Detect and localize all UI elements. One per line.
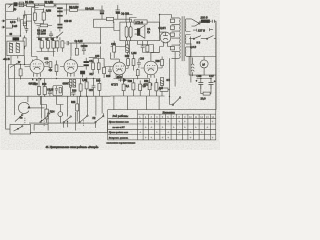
transformer T3 primary taps [170, 18, 179, 58]
wire antenna bus [6, 33, 21, 37]
resistor R4 [23, 36, 26, 50]
resistor R15 [49, 62, 52, 72]
wire switch bus bottom [6, 114, 108, 133]
antenna arrows left edge [2, 20, 5, 28]
wire drops to table [114, 96, 159, 110]
capacitor C16 [137, 59, 141, 69]
table column grid [138, 110, 211, 140]
resistor R41 horizontal [160, 88, 170, 91]
resistor R8 horizontal [37, 24, 53, 27]
MID-LEFT SECTION [32, 8, 56, 57]
capacitor C14 dark blob [80, 71, 85, 78]
coil L7 motor [191, 58, 194, 77]
resistor R25 [43, 79, 46, 97]
TOP-EDGE [6, 2, 132, 27]
variable capacitor C6 arrow [9, 61, 33, 68]
TOP-LEFT EXTRA WIRES [6, 4, 44, 38]
wire HT verticals [170, 52, 191, 97]
capacitor C17 [48, 88, 52, 96]
RECTIFIER AREA [151, 15, 172, 53]
capacitor C7 [49, 31, 53, 39]
diode D1 [118, 78, 130, 82]
resistor R1 [24, 4, 39, 7]
voltage selector switch [192, 19, 202, 26]
resistor R6 [33, 10, 36, 24]
wire vertical bus x31 [32, 8, 39, 57]
wire rectifier anode [160, 15, 172, 33]
resistor R24 [37, 79, 40, 97]
transformer T3 core [182, 16, 184, 61]
wire box feeds [126, 15, 137, 23]
wire horizontals lower [29, 123, 95, 134]
resistor R36 [155, 79, 158, 97]
wire tube V3 connections [111, 53, 128, 69]
wire stub rows [6, 15, 32, 33]
choke L8 [126, 41, 129, 55]
wire IF out [11, 56, 18, 65]
table column numbers [139, 116, 215, 119]
wire under box [138, 41, 154, 53]
capacitor C15 [108, 67, 112, 76]
wire x65-70 vertical [67, 4, 72, 57]
resistor R33a [132, 79, 135, 97]
resistor R20 [127, 55, 130, 69]
wire tube V1 connections [25, 57, 49, 67]
wire osc section [35, 4, 44, 38]
capacitor C1 dark pair top [57, 7, 63, 15]
OUTPUT BOX + TOP MID [114, 15, 160, 41]
wire rectifier heater [160, 43, 172, 47]
potentiometer R30 [41, 96, 51, 122]
capacitor C9 coupling [65, 41, 69, 45]
POWER TRANSFORMER SECTION [170, 15, 216, 62]
capacitor C23 [23, 22, 27, 23]
VALUE LABELS [3, 2, 170, 120]
MID STRIP x55-70 [56, 4, 114, 57]
resistor R12 [56, 40, 59, 52]
player box [189, 57, 216, 76]
mains plug [199, 20, 216, 23]
resistor R9 [40, 38, 43, 52]
resistor R10 [47, 38, 50, 52]
resistor R35 [148, 79, 151, 97]
wire ground bus y78 [9, 78, 101, 80]
frame border [6, 4, 216, 129]
FEEDBACK CLUSTER [111, 78, 170, 110]
coil L5 hatched [73, 80, 76, 88]
wire screen feeds [111, 41, 130, 55]
capacitor C22 [141, 41, 145, 53]
wire filter line [82, 9, 104, 11]
resistor R21 [132, 55, 135, 71]
UNDER-BOX COMPONENTS [2, 20, 154, 58]
resistor R34 [139, 81, 142, 97]
resistor R27 [85, 78, 88, 97]
resistor R38 [146, 41, 149, 53]
switch S1 diagonal [56, 32, 63, 40]
switch S2 power [170, 97, 181, 106]
capacitor C10 [82, 43, 86, 55]
resistor R39 [23, 11, 26, 29]
wire secondary runs [189, 35, 192, 63]
wire linkage dashed [25, 117, 84, 126]
resistor R26 [79, 79, 82, 97]
output transformer T2 [125, 22, 132, 41]
TUBES ROW [25, 41, 164, 87]
resistor R2 [39, 4, 56, 7]
capacitor C3 [100, 6, 105, 20]
socket 127V marks [193, 28, 213, 31]
table outer box [108, 110, 216, 140]
switch S3 band [10, 125, 31, 135]
switch S7 [95, 113, 104, 128]
capacitor C4 [18, 18, 19, 22]
table plus marks row1 [139, 120, 213, 124]
wire antenna input top left [6, 5, 14, 12]
SWITCH TABLE [108, 110, 216, 140]
wire vertical x59.4 [59, 19, 61, 24]
coil L3 ferrite antenna [13, 37, 20, 43]
wire tuning bus [9, 56, 33, 79]
wire bus y95.5 right [111, 95, 165, 97]
resistor R17 [92, 59, 95, 74]
BOTTOM-LEFT SECTION [2, 2, 216, 149]
tube V3 [113, 59, 126, 78]
LEFT SECTION [6, 11, 33, 80]
resistor R11 [52, 38, 55, 52]
pickup G [18, 102, 44, 113]
switch S4 band [40, 113, 49, 123]
transformer T3 secondary winding [184, 19, 187, 56]
table row grid [108, 114, 216, 135]
resistor R29 [201, 89, 211, 95]
capacitor C19 [92, 79, 96, 97]
RIGHT-BOTTOM SECTION [170, 23, 216, 110]
coil L4 hatched [69, 80, 72, 97]
table plus marks row3 [139, 131, 203, 135]
tube V5 rectifier [160, 32, 171, 43]
capacitor C21 electrolytic [209, 79, 216, 90]
loudspeaker box [120, 22, 160, 41]
label box type [134, 20, 147, 24]
switch block box [34, 112, 76, 131]
wire hf bus [82, 10, 132, 28]
transformer secondary taps [186, 19, 191, 56]
coil L2 [19, 2, 24, 7]
resistor R14 [75, 43, 78, 55]
wire B+ line [151, 47, 160, 53]
MID-BOTTOM BAND [6, 78, 111, 97]
wire top bus [39, 4, 56, 8]
wire left frame verticals [9, 65, 15, 116]
resistor R7 [42, 9, 45, 24]
tube V1 [30, 57, 44, 77]
capacitor C9b [116, 5, 121, 19]
resistor R16 [55, 61, 58, 76]
capacitor C12 between V1 grid [45, 61, 51, 65]
wire bus y95.7 [6, 95, 111, 97]
resistor R23 [161, 59, 164, 65]
IF transformer T1 box [7, 41, 24, 56]
switch S3b upper [15, 114, 23, 121]
box filter C/R [53, 86, 63, 96]
resistor R37 [113, 41, 116, 58]
wire y78 stub [114, 78, 150, 80]
switch S5 [63, 116, 71, 128]
switch S6 [79, 112, 88, 123]
wire corner x100 [101, 28, 114, 44]
table plus marks row4 [145, 136, 214, 140]
tube V1 pin numbers [32, 79, 42, 81]
tube V4 [144, 58, 158, 78]
wire tube V2 connections [60, 66, 81, 68]
wire detector row [81, 47, 113, 67]
wire tube V4 connections [141, 53, 162, 69]
capacitor C8 dark [57, 24, 62, 32]
resistor R5 [19, 65, 22, 80]
wire coupling line y42.6 [69, 42, 101, 44]
jack dark circle [58, 105, 63, 124]
motor M [200, 60, 208, 68]
capacitor C11 label wire [114, 22, 120, 31]
node junction dots left [20, 64, 25, 65]
resistor R18 [97, 59, 100, 74]
resistor R31 [76, 96, 79, 121]
wire drops mid-bottom [28, 96, 102, 122]
resistor R19 [103, 67, 106, 78]
switch S8 voltage [189, 36, 216, 57]
capacitor C2 dark pair [57, 15, 63, 19]
capacitor C20 electrolytic [196, 79, 211, 90]
wire mid bus [37, 38, 56, 57]
coil L1 [14, 2, 18, 6]
paper grain texture [1, 1, 221, 151]
wire right frame drop [215, 23, 217, 110]
resistor R28 [98, 79, 101, 97]
loudspeaker symbol [135, 25, 145, 38]
capacitor C18 [71, 93, 75, 97]
choke L6 [160, 78, 163, 96]
tube V2 [64, 57, 78, 77]
resistor R22 [136, 69, 139, 80]
wire left input [6, 19, 25, 21]
resistor R13 [61, 40, 64, 52]
transformer T3 primary winding [178, 18, 181, 58]
resistor R32 [122, 81, 125, 97]
resistor R3 horizontal [64, 9, 82, 12]
capacitor C5 trimmer [25, 26, 28, 33]
capacitor C13 dark [84, 58, 89, 70]
table plus marks row2 [145, 125, 208, 129]
resistor R40 [107, 17, 114, 20]
